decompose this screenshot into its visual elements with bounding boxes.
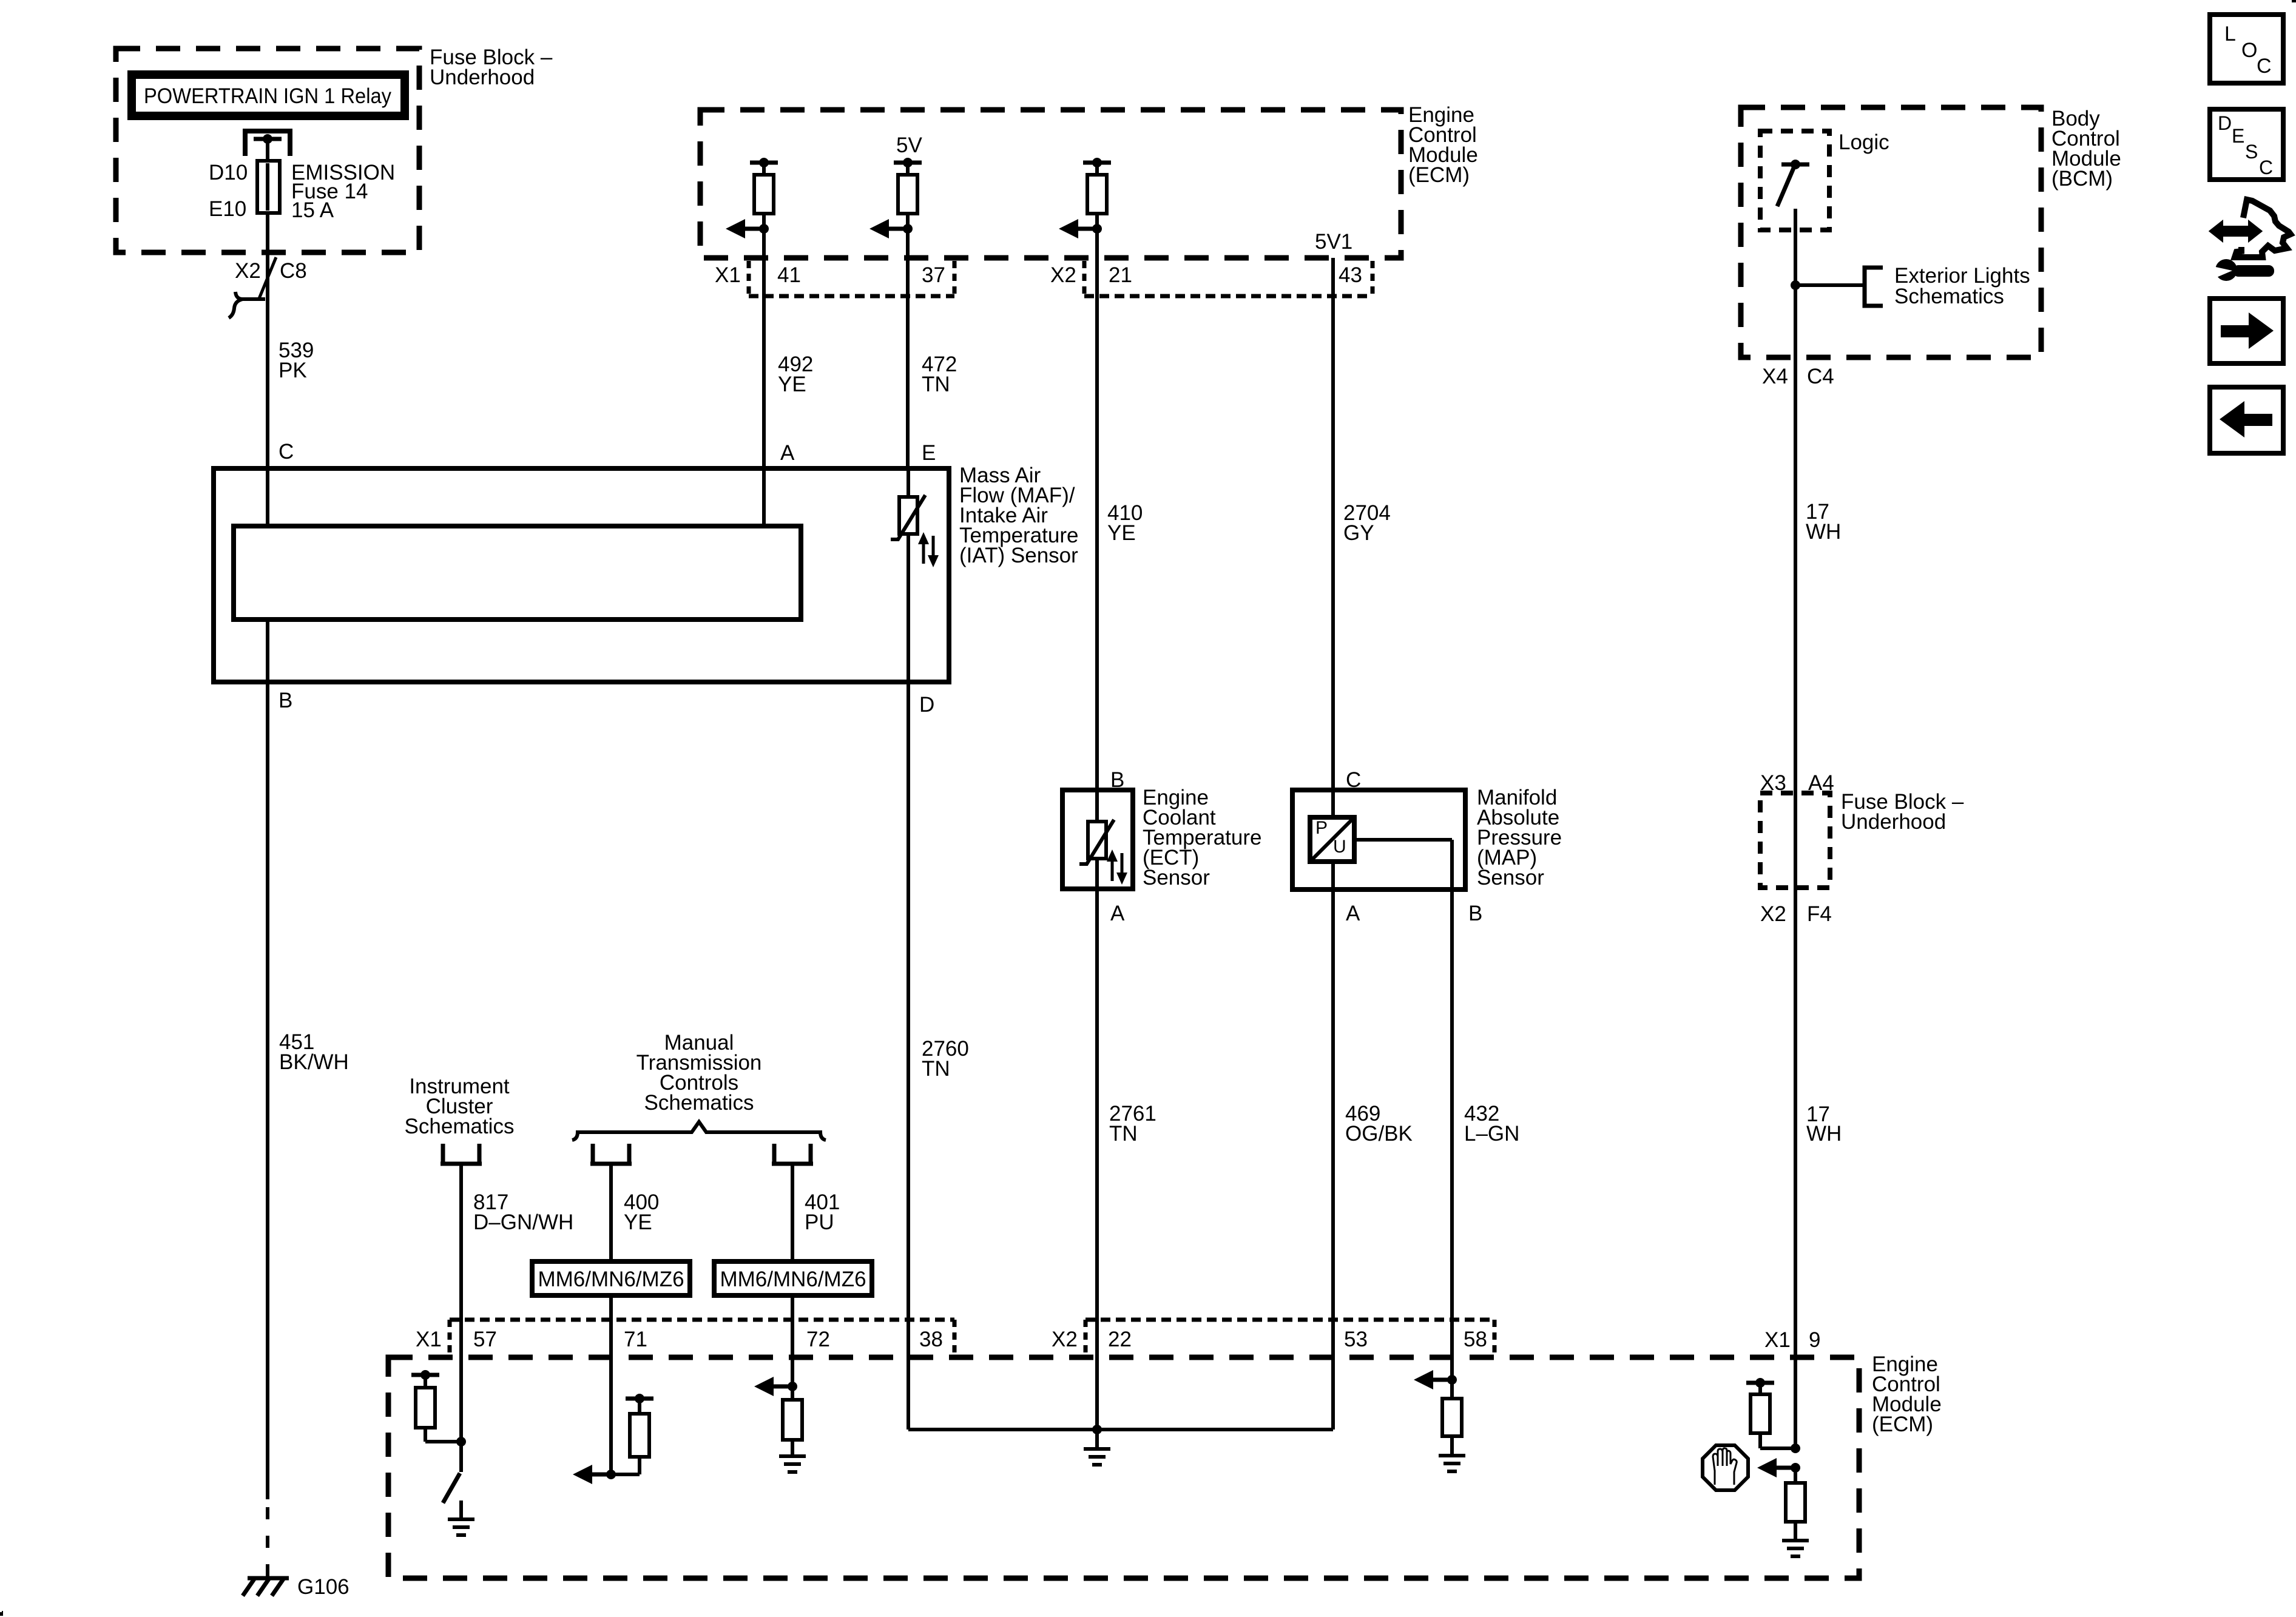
icon back arrow box [2210, 387, 2283, 453]
svg-text:MM6/MN6/MZ6: MM6/MN6/MZ6 [720, 1268, 866, 1291]
MAF sensor inner element box [234, 526, 801, 619]
MAP P/U transducer box [1310, 817, 1354, 862]
svg-text:O: O [2241, 39, 2257, 62]
svg-text:X1: X1 [1764, 1328, 1791, 1352]
ECM 57 pull-up resistor [416, 1388, 461, 1442]
svg-text:38: 38 [919, 1328, 943, 1351]
wire 5V1 inside ECM [1331, 258, 1335, 296]
svg-text:A: A [1110, 902, 1125, 925]
label 401 PU [805, 1190, 840, 1234]
label 410 YE [1107, 501, 1143, 545]
svg-text:21: 21 [1109, 263, 1132, 287]
wire 469 OG/BK: MAP A to ECM 53 [1331, 890, 1335, 1430]
wire through fuse block [1794, 793, 1797, 888]
svg-text:Schematics: Schematics [405, 1115, 515, 1138]
svg-text:BK/WH: BK/WH [279, 1050, 349, 1074]
ground (ECM 58) [1439, 1456, 1465, 1471]
svg-text:TN: TN [922, 1057, 950, 1081]
ground (ECM 57) [448, 1519, 474, 1535]
relay output terminal bracket [245, 131, 290, 156]
ECM signal arrow 2 [869, 219, 913, 238]
label Instrument Cluster Schematics [405, 1075, 515, 1138]
wire 451 BK/WH: MAF pin B down to G106 [266, 619, 269, 1499]
BCM logic dashed box [1760, 131, 1829, 230]
off-page connector (401 PU) [772, 1144, 813, 1164]
ECT sensor box [1062, 790, 1133, 889]
svg-text:15 A: 15 A [291, 198, 334, 222]
label Fuse Block - Underhood (right) [1841, 790, 1964, 834]
ECM 71 resistor to supply [611, 1394, 653, 1474]
icon DESC box [2210, 109, 2283, 180]
icon LOC box [2210, 15, 2283, 83]
svg-text:C: C [279, 440, 294, 464]
svg-text:B: B [279, 689, 292, 712]
wire 492 YE: ECM 41 to MAF A [762, 296, 766, 526]
ECM 9 internal supply terminal [1746, 1378, 1774, 1394]
wire 472 TN: ECM 37 to MAF E [906, 296, 910, 468]
svg-text:D: D [919, 693, 934, 717]
svg-text:C: C [2259, 157, 2273, 178]
svg-text:B: B [1468, 902, 1482, 925]
page corner registration mark (top right) [2292, 0, 2296, 2]
wire inside ECT [1095, 790, 1099, 822]
wire inside BCM [1794, 230, 1797, 357]
label 400 YE [624, 1190, 659, 1234]
ground stem (ECM 22) [1095, 1430, 1099, 1447]
svg-text:E10: E10 [209, 197, 246, 221]
wire 2761 TN: ECT A to ECM 22 [1095, 889, 1099, 1430]
svg-text:X4: X4 [1762, 365, 1788, 388]
svg-text:C4: C4 [1807, 365, 1834, 388]
label 492 YE [778, 353, 813, 396]
wire 58 inside ECM [1450, 1357, 1454, 1399]
svg-text:POWERTRAIN IGN 1 Relay: POWERTRAIN IGN 1 Relay [144, 84, 391, 108]
label Fuse Block - Underhood [430, 46, 553, 89]
label 17 WH (lower) [1806, 1102, 1842, 1146]
engine control module ECM (bottom) dashed box [388, 1357, 1859, 1578]
label Manual Transmission Controls Schematics [636, 1031, 762, 1115]
wire 539 PK: C8 to MAF sensor pin C [266, 299, 269, 526]
svg-text:53: 53 [1344, 1328, 1368, 1351]
svg-text:WH: WH [1806, 1122, 1842, 1146]
ECM top connector band X2 [1084, 261, 1373, 296]
svg-text:Underhood: Underhood [430, 66, 535, 89]
ECM 72 resistor [783, 1400, 802, 1454]
svg-text:5V: 5V [896, 133, 922, 157]
MAP signal branch to pin B [1354, 840, 1452, 890]
ECM internal 5V supply terminal 1 [750, 158, 778, 167]
ECM 72 signal arrow [754, 1377, 797, 1396]
ECM 57 switch to ground [443, 1442, 461, 1517]
MAF/IAT sensor outer box [214, 468, 949, 682]
fuse value label EMISSION Fuse 14 15 A [291, 161, 395, 222]
junction on wire 9 [1791, 1443, 1800, 1453]
svg-text:GY: GY [1343, 521, 1374, 545]
svg-text:Logic: Logic [1838, 130, 1889, 154]
svg-text:TN: TN [922, 373, 950, 396]
svg-text:E: E [922, 441, 936, 465]
ground (ECM 72) [779, 1456, 806, 1472]
svg-text:(ECM): (ECM) [1872, 1413, 1933, 1436]
svg-text:D–GN/WH: D–GN/WH [473, 1210, 573, 1234]
ECM 58 resistor [1442, 1399, 1462, 1454]
engine control module ECM (top) dashed box [700, 110, 1401, 258]
ECM 57 internal supply terminal [411, 1370, 439, 1388]
label 2704 GY [1343, 501, 1391, 545]
svg-text:5V1: 5V1 [1315, 230, 1352, 254]
svg-text:Schematics: Schematics [1894, 285, 2004, 308]
wire 401 PU to ECM 72 [791, 1164, 794, 1386]
label 817 D-GN/WH [473, 1190, 573, 1234]
label 2760 TN [922, 1037, 969, 1081]
junction node to exterior lights [1791, 280, 1800, 290]
IAT bidirectional arrows [918, 532, 939, 567]
svg-text:TN: TN [1109, 1122, 1138, 1146]
icon remove/install mitt with double arrow and wrench [2210, 200, 2291, 281]
svg-text:E: E [2232, 125, 2244, 147]
svg-text:L: L [2224, 22, 2236, 46]
ECM pull-up resistor 1 [754, 163, 774, 296]
svg-text:YE: YE [778, 373, 806, 396]
wire 2760 TN: MAF D down to ground net [907, 682, 910, 1430]
wire inside MAP to transducer [1331, 790, 1335, 817]
ECM 58 signal arrow [1414, 1370, 1457, 1389]
svg-text:WH: WH [1806, 520, 1841, 544]
wire 72 inside ECM [791, 1357, 794, 1400]
label 432 L-GN [1464, 1102, 1519, 1146]
svg-text:41: 41 [777, 263, 801, 287]
junction on wire 57 [456, 1437, 466, 1447]
wire 817 D-GN/WH to ECM 57 [459, 1164, 463, 1442]
wire 22 inside ECM [1095, 1357, 1099, 1430]
ECM 9 pull-up resistor [1751, 1394, 1795, 1448]
label Exterior Lights Schematics [1894, 264, 2030, 308]
svg-text:L–GN: L–GN [1464, 1122, 1519, 1146]
label 469 OG/BK [1345, 1102, 1413, 1146]
svg-text:X2: X2 [1760, 902, 1786, 926]
wire 432 L-GN: MAP B to ECM 58 [1450, 890, 1454, 1380]
svg-text:(ECM): (ECM) [1408, 163, 1470, 187]
wire 2704 GY: ECM 43 to MAP C [1331, 296, 1335, 790]
off-page connector (400 YE) [590, 1144, 632, 1164]
label Engine Coolant Temperature (ECT) Sensor [1143, 786, 1261, 890]
chassis ground G106 [243, 1578, 289, 1596]
fuse block underhood (right) pass-through dashed box [1760, 793, 1830, 888]
wire: relay to fuse F14 [266, 139, 269, 161]
ECM bottom connector band X1 [450, 1320, 954, 1355]
svg-text:43: 43 [1339, 263, 1362, 287]
svg-text:S: S [2245, 141, 2258, 163]
svg-text:PU: PU [805, 1210, 834, 1234]
label Engine Control Module (ECM) bottom [1872, 1352, 1942, 1436]
svg-text:Sensor: Sensor [1143, 866, 1210, 890]
wire 400 YE to ECM 71 [609, 1164, 613, 1474]
label Engine Control Module (ECM) [1408, 103, 1478, 187]
ECM 9 resistor to ground [1786, 1468, 1805, 1539]
svg-text:P: P [1315, 818, 1328, 838]
svg-text:PK: PK [279, 359, 307, 382]
label Body Control Module (BCM) [2051, 107, 2121, 191]
svg-text:MM6/MN6/MZ6: MM6/MN6/MZ6 [538, 1268, 684, 1291]
page corner registration mark (bottom left) [0, 1611, 3, 1616]
svg-text:71: 71 [624, 1328, 647, 1351]
svg-text:Sensor: Sensor [1477, 866, 1544, 890]
branch to Exterior Lights Schematics bracket [1795, 268, 1883, 306]
junction on ground net [1092, 1425, 1102, 1434]
BCM driver switch [1777, 160, 1809, 230]
svg-text:X1: X1 [416, 1328, 442, 1351]
label 17 WH (upper) [1806, 500, 1841, 544]
svg-text:OG/BK: OG/BK [1345, 1122, 1413, 1146]
svg-text:X2: X2 [1052, 1328, 1078, 1351]
svg-text:72: 72 [806, 1328, 830, 1351]
ground (ECM 9) [1782, 1541, 1809, 1556]
relay K: POWERTRAIN IGN 1 Relay box [132, 75, 405, 116]
svg-text:9: 9 [1809, 1328, 1820, 1352]
ECM signal arrow 1 [726, 219, 769, 238]
ECT bidirectional arrows [1107, 849, 1127, 885]
ECM pull-up resistor 3 [1087, 163, 1107, 296]
svg-text:Underhood: Underhood [1841, 810, 1946, 834]
svg-text:YE: YE [624, 1210, 652, 1234]
svg-text:YE: YE [1107, 521, 1136, 545]
svg-text:58: 58 [1464, 1328, 1487, 1351]
svg-text:37: 37 [922, 263, 945, 287]
fuse F14 EMISSION 15 A symbol [257, 161, 280, 213]
brace over manual transmission branches [572, 1122, 826, 1140]
svg-text:D: D [2218, 112, 2232, 134]
MAP sensor box [1292, 790, 1465, 890]
svg-text:(BCM): (BCM) [2051, 167, 2113, 191]
svg-text:G106: G106 [297, 1575, 349, 1599]
stop hand icon [1703, 1445, 1748, 1490]
wire E inside MAF box [907, 468, 910, 497]
dashed wire continuation to ground [266, 1507, 269, 1578]
ECM 9 signal arrow [1757, 1458, 1800, 1477]
svg-text:C: C [2257, 55, 2272, 78]
svg-text:Schematics: Schematics [644, 1091, 754, 1115]
label Manifold Absolute Pressure (MAP) Sensor [1477, 786, 1562, 890]
wire 17 WH: BCM C4 down [1794, 357, 1797, 793]
svg-text:C8: C8 [280, 259, 307, 283]
ECM bottom connector band X2 [1086, 1320, 1494, 1355]
wire 38 inside ECM to ground net [908, 1357, 1333, 1430]
thermistor RT2 (ECT) [1079, 820, 1114, 864]
wire: fuse to connector C8 [266, 213, 269, 299]
svg-text:D10: D10 [209, 161, 248, 184]
connector C8 clip symbol [229, 292, 265, 318]
svg-text:(IAT) Sensor: (IAT) Sensor [959, 544, 1078, 567]
label 2761 TN [1109, 1102, 1156, 1146]
wire 17 WH: F4 to ECM X1-9 [1794, 888, 1797, 1448]
label 539 PK [279, 339, 314, 382]
svg-text:X2: X2 [235, 259, 261, 283]
ECM 71 signal arrow [573, 1465, 616, 1484]
ECM pull-up resistor 2 [898, 163, 917, 296]
thermistor RT1 (IAT) on wire E [891, 495, 925, 539]
svg-text:A: A [1346, 902, 1360, 925]
wire 71 inside ECM [609, 1357, 613, 1474]
ECM internal 5V supply terminal 2 [894, 158, 922, 167]
wire 53 inside ECM [1331, 1357, 1335, 1430]
svg-text:U: U [1333, 837, 1346, 857]
svg-text:F4: F4 [1807, 902, 1832, 926]
svg-text:22: 22 [1108, 1328, 1132, 1351]
ECM top connector band X1 [749, 261, 954, 296]
body control module BCM dashed box [1741, 107, 2041, 357]
connector X2/C8 slash [259, 257, 276, 299]
option box MM6/MN6/MZ6 (401) [714, 1261, 872, 1295]
option box MM6/MN6/MZ6 (400) [532, 1261, 690, 1295]
label 451 BK/WH [279, 1030, 349, 1074]
ECM internal 5V supply terminal 3 [1083, 158, 1111, 167]
ground (ECM 22/38/53) [1084, 1449, 1110, 1465]
wire 410 YE: ECM 21 to ECT B [1095, 296, 1099, 790]
ECM signal arrow 3 [1059, 219, 1102, 238]
icon forward arrow box [2210, 299, 2283, 363]
off-page connector to instrument cluster [441, 1144, 482, 1164]
svg-text:A: A [780, 441, 795, 465]
label Mass Air Flow (MAF)/ Intake Air Temperature (IAT) Sensor [959, 464, 1078, 567]
svg-text:X2: X2 [1050, 263, 1076, 287]
fuse block underhood (top-left) dashed enclosure [116, 49, 419, 252]
svg-text:X1: X1 [715, 263, 741, 287]
svg-text:57: 57 [473, 1328, 497, 1351]
